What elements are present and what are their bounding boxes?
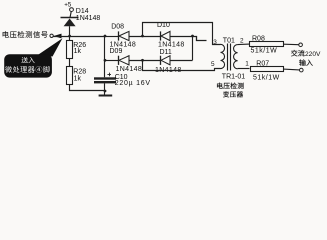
diode D09	[118, 56, 120, 65]
resistor R26	[67, 41, 73, 59]
node: signal input terminal	[50, 34, 53, 37]
svg-text:R07: R07	[256, 60, 269, 67]
net label: voltage detection signal 电压检测信号	[3, 31, 9, 38]
node: AC terminal bottom	[300, 68, 304, 72]
svg-text:1: 1	[245, 61, 249, 68]
capacitor C10 (electrolytic) polarity mark	[107, 74, 111, 76]
diode D10	[160, 31, 162, 40]
junction: row2 mid	[141, 59, 144, 62]
svg-text:2: 2	[240, 38, 244, 45]
svg-text:220µ 16V: 220µ 16V	[115, 80, 151, 87]
svg-text:51k/1W: 51k/1W	[251, 48, 278, 55]
wire: signal rail	[54, 36, 106, 38]
diode D11	[160, 56, 162, 65]
label AC input 输入	[299, 59, 306, 65]
junction: rail2/C10	[104, 59, 107, 62]
svg-text:T01: T01	[223, 37, 235, 44]
wire: pin1 to R07	[238, 68, 250, 70]
wire: C10 column	[104, 36, 106, 77]
svg-text:TR1-01: TR1-01	[222, 74, 245, 81]
resistor R08	[250, 42, 284, 47]
svg-text:51k/1W: 51k/1W	[253, 74, 280, 81]
transformer core	[227, 44, 229, 71]
wire: pin2 to R08	[238, 43, 250, 46]
svg-text:5: 5	[211, 61, 215, 68]
svg-text:1N4148: 1N4148	[116, 66, 143, 73]
wire: row2 leads	[105, 60, 118, 62]
wire: row1 leads	[105, 36, 118, 38]
transformer T01 winding pins 2-1	[234, 45, 238, 69]
label caption 变压器	[223, 91, 229, 97]
label AC input 交流220V	[291, 50, 297, 57]
svg-text:D11: D11	[160, 49, 172, 56]
svg-text:3: 3	[213, 39, 217, 46]
capacitor C10 plates	[94, 77, 116, 79]
resistor R28	[67, 67, 73, 85]
wire: right vertical	[192, 36, 194, 60]
svg-text:D09: D09	[110, 48, 123, 55]
svg-text:1N4148: 1N4148	[158, 42, 185, 49]
svg-text:220V: 220V	[305, 51, 321, 58]
label caption 电压检测	[217, 83, 223, 89]
svg-text:R08: R08	[252, 35, 265, 42]
junction: rail1/C10	[104, 35, 107, 38]
diode D14	[61, 17, 79, 19]
svg-text:1N4148: 1N4148	[76, 15, 101, 22]
wire: top bypass rail	[143, 23, 221, 45]
svg-text:1k: 1k	[74, 48, 82, 55]
junction: row1 mid	[141, 35, 144, 38]
resistor R07	[251, 67, 284, 72]
ground	[99, 95, 113, 97]
junction: ground rail/C10	[104, 90, 107, 93]
callout balloon: 送入微处理器④脚	[37, 38, 63, 56]
svg-text:1k: 1k	[74, 75, 82, 82]
node: AC terminal top	[299, 43, 303, 47]
diode D08	[118, 31, 120, 40]
wire: R26-R28	[69, 58, 71, 66]
transformer T01 winding pins 3-5	[221, 44, 225, 68]
junction: row1 right	[191, 35, 194, 38]
svg-text:D08: D08	[111, 23, 124, 30]
junction: signal/D14/R26	[68, 35, 71, 38]
wire: row2 to transformer pin 5	[143, 60, 221, 70]
wire: R28 to ground rail	[70, 84, 106, 91]
wire: stub to transformer pin 4	[193, 37, 207, 41]
